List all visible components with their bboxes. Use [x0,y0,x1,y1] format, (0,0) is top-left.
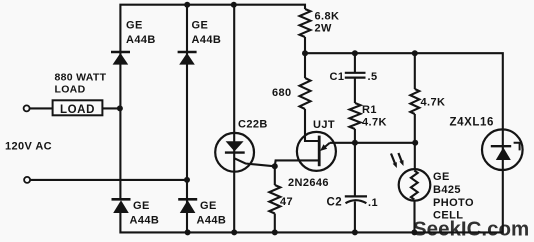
svg-text:C1: C1 [330,71,345,83]
svg-text:A44B: A44B [192,34,222,46]
resistor R1 4.7K [350,103,361,129]
junction bottom bus 47 [272,229,278,235]
wire C22B column [233,5,235,233]
light arrow 2 [398,153,403,166]
junction bottom bus C22B cathode [231,229,237,235]
junction mid bus 4.7K [412,50,418,56]
wire terminal 2 to D2 column [30,179,187,181]
photocell GE B425 [399,143,431,233]
svg-text:6.8K: 6.8K [315,11,340,23]
resistor 4.7K (photocell branch) [414,53,416,89]
svg-text:PHOTO: PHOTO [433,197,474,209]
svg-text:A44B: A44B [197,215,227,227]
terminal AC line 2 [24,177,30,183]
junction bottom bus D4 [185,229,191,235]
SCR C22B [215,133,254,172]
svg-text:GE: GE [192,20,209,32]
junction bottom bus C2 [352,229,358,235]
wire bottom bus [120,170,502,232]
resistor 47 [274,166,276,185]
junction mid bus 6.8K/680 [302,50,308,56]
transistor UJT 2N2646 [297,132,336,171]
junction top bus C22B anode [231,2,237,8]
wire mid bus (node B2 supply) [304,37,306,78]
svg-text:47: 47 [280,196,293,208]
svg-text:LOAD: LOAD [60,104,95,116]
wire D1 column [119,52,121,199]
junction LOAD node [117,105,123,111]
svg-text:B425: B425 [433,184,461,196]
svg-text:4.7K: 4.7K [421,97,446,109]
wire mid bus horizontal [305,53,503,129]
svg-text:UJT: UJT [313,119,335,131]
svg-text:GE: GE [133,200,150,212]
svg-text:A44B: A44B [126,34,156,46]
svg-text:A44B: A44B [130,215,160,227]
svg-text:880 WATT: 880 WATT [55,72,107,84]
wire D2 column [186,5,188,233]
junction emitter/photocell node [412,140,418,146]
wire top bus [120,5,305,52]
svg-text:2W: 2W [315,23,333,35]
svg-text:Z4XL16: Z4XL16 [450,117,495,129]
wire 680 to UJT B2 [305,109,319,141]
svg-text:SeekIC.com: SeekIC.com [413,218,529,241]
wire gate node to UJT B1 [275,160,319,166]
svg-text:R1: R1 [362,104,377,116]
svg-text:120V AC: 120V AC [5,141,52,153]
diode D2 GE A44B [178,52,197,65]
junction gate node [272,163,278,169]
svg-text:GE: GE [126,20,143,32]
svg-text:.5: .5 [368,71,378,83]
junction mid bus C1 [352,50,358,56]
junction AC2 node [184,177,190,183]
wire terminal to LOAD [30,107,53,109]
diode D3 GE A44B (bottom left) [112,199,131,213]
wire UJT emitter row [330,142,415,144]
load LOAD 880 WATT [53,100,103,115]
wire C22B gate [234,158,274,166]
svg-text:2N2646: 2N2646 [288,177,329,189]
junction top bus D2 [184,2,190,8]
svg-text:LOAD: LOAD [55,84,86,96]
svg-text:4.7K: 4.7K [362,117,387,129]
wire LOAD to D1 column [102,107,120,109]
svg-text:C22B: C22B [238,119,268,131]
diode D1 GE A44B [111,52,130,65]
svg-text:C2: C2 [327,197,343,209]
svg-text:GE: GE [433,171,450,183]
resistor 6.8K 2W [300,9,311,37]
capacitor C2 .1 [345,143,367,233]
resistor 680 [300,78,311,109]
svg-text:680: 680 [272,87,292,99]
zener Z4XL16 [482,129,523,170]
capacitor C1 .5 [345,53,366,103]
svg-text:GE: GE [200,200,217,212]
diode D4 GE A44B (bottom right) [178,199,197,213]
junction emitter/R1 node [352,140,358,146]
svg-text:.1: .1 [368,197,378,209]
junction bottom bus photocell [411,229,417,235]
light arrow 1 [391,154,397,169]
terminal AC line 1 [24,105,30,111]
